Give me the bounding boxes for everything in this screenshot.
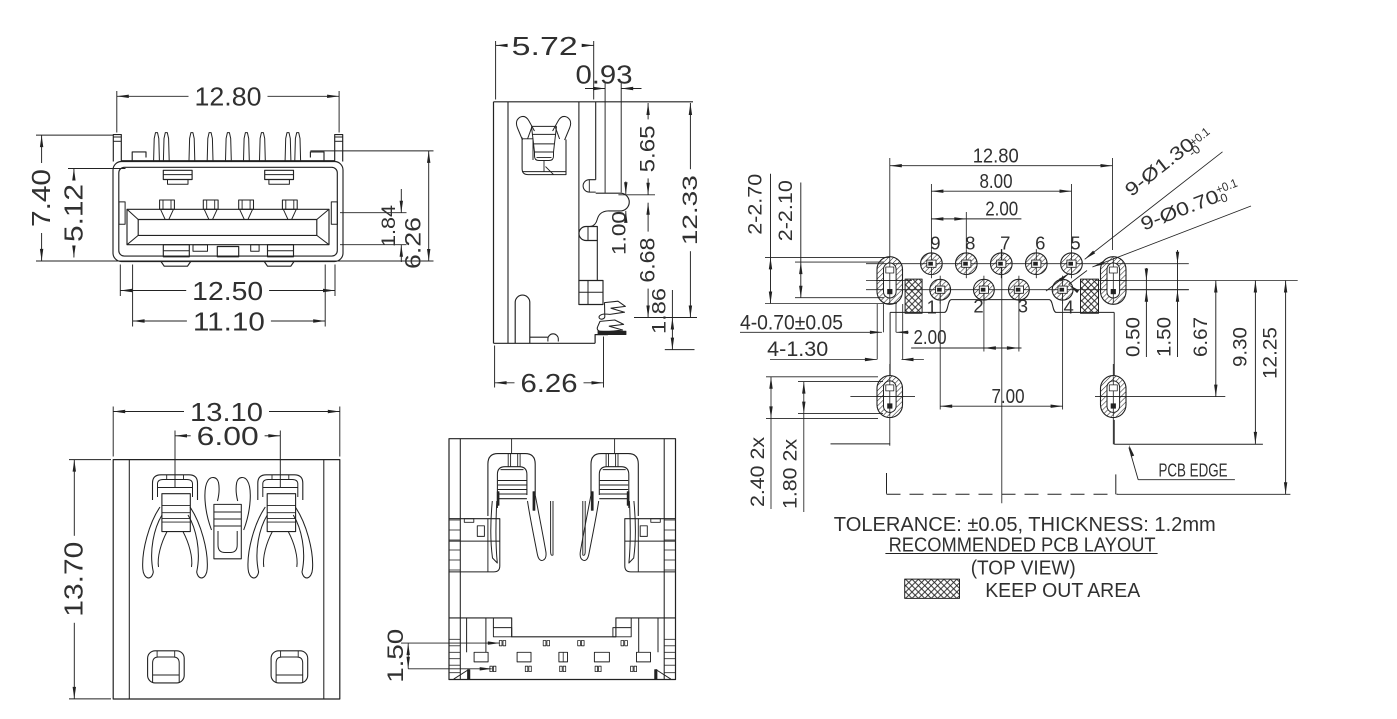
oblong mounting pad top-right (1100, 257, 1128, 305)
svg-text:7.00: 7.00 (992, 386, 1025, 408)
dimension 6.00 (spring spacing) (175, 421, 280, 451)
front view outer shell (113, 162, 343, 262)
plated hole pin 3 (Ø0.70) (1009, 279, 1030, 300)
right edge seam ticks (664, 519, 675, 521)
plated hole pin 2 (Ø0.70) (974, 279, 995, 300)
svg-text:12.33: 12.33 (679, 175, 702, 245)
dimension 0.93 (tab offset) (576, 60, 642, 193)
ext 2-2.10 top (795, 261, 884, 263)
bottom-left pad centerline below (889, 418, 891, 446)
bottom view right claw (580, 454, 638, 572)
pin1 ext line down (939, 290, 941, 410)
front view inner shell (119, 167, 337, 256)
dimension 13.70 (body length) (59, 460, 89, 699)
svg-text:13.70: 13.70 (59, 542, 89, 617)
front view left shoulder step (132, 152, 146, 161)
front view right foot (264, 262, 294, 267)
bottom-right pad centerline below (1112, 418, 1114, 445)
svg-text:3: 3 (1018, 296, 1028, 317)
right foot pad (271, 651, 308, 683)
svg-text:2-2.70: 2-2.70 (746, 174, 767, 235)
left terminal blocks (467, 618, 512, 662)
ext line 6.26 left (494, 346, 496, 388)
dimension 11.10 (133, 306, 326, 336)
dimension 1.80 2x (bottom slot length) (781, 382, 883, 512)
ext line 12.80 left (116, 91, 118, 133)
PCB edge ext to 12.25 (1118, 493, 1290, 495)
top hole row centerline (866, 263, 1189, 265)
svg-text:5.72: 5.72 (512, 31, 578, 61)
right spring claw (248, 475, 313, 578)
svg-text:6.00: 6.00 (197, 421, 259, 451)
side view: USB-A receptacle, side elevation (494, 31, 703, 398)
bottom-left view: connector top view with springs (59, 397, 340, 699)
left foot pad (148, 651, 185, 683)
oblong mounting pad bottom-left (876, 376, 904, 418)
svg-text:6.68: 6.68 (637, 238, 660, 283)
dimension 2.40 2x (bottom pad length) (748, 377, 878, 509)
footprint vertical centerline (pin7) (1001, 249, 1003, 503)
left edge seam ticks (449, 519, 460, 521)
plated hole pin 7 (Ø1.30) (991, 253, 1013, 275)
bottom-left pad horizontal centerline (850, 396, 915, 398)
front view tongue bevel top-left (127, 209, 138, 219)
front view right shoulder step (310, 152, 324, 161)
left spring claw (143, 475, 208, 578)
svg-text:1.84: 1.84 (379, 205, 400, 247)
svg-text:(TOP VIEW): (TOP VIEW) (971, 557, 1076, 579)
middle pad row (517, 652, 531, 662)
front view left foot (161, 262, 191, 267)
side view SMT lead fork lower (597, 320, 623, 332)
outline left vertical upper (889, 312, 891, 375)
ext 8.00 right (pin5) (1071, 184, 1073, 249)
keep out area legend swatch (905, 579, 960, 598)
right inner wall line (323, 460, 325, 699)
front view tongue bevel bottom-right (317, 235, 329, 244)
ext line 5.72 right (593, 41, 595, 100)
bottom-middle view: connector bottom view (383, 439, 676, 683)
svg-text:1: 1 (927, 297, 937, 318)
ext 12.80 right (1112, 158, 1114, 250)
dimension 6.67 (1191, 281, 1218, 397)
claw centerline tick right (614, 439, 616, 454)
ext line at tab top y=194.8 (618, 194, 655, 196)
dimension 6.26 (front shell height) (344, 151, 434, 269)
bottom-right pad centerline above (1112, 364, 1114, 376)
svg-text:4-0.70±0.05: 4-0.70±0.05 (740, 312, 843, 335)
dimension 2-2.10 (slot length) (776, 180, 803, 298)
ext 2-2.70 bottom (765, 303, 897, 305)
front view left mounting post (113, 135, 121, 162)
svg-text:0.50: 0.50 (1123, 317, 1144, 357)
dimension 1.50 (rows pitch) (1155, 250, 1180, 357)
svg-text:6.26: 6.26 (521, 368, 578, 398)
svg-text:12.80: 12.80 (973, 146, 1019, 168)
ext 2-2.70 top (765, 256, 890, 258)
front view tongue outer (127, 209, 329, 244)
plated hole pin 9 (Ø1.30) (921, 253, 943, 275)
ext line 12.50 left (119, 265, 121, 297)
svg-text:5.65: 5.65 (637, 125, 660, 172)
side view left inner wall (507, 102, 509, 343)
ext line 12.50 right (334, 265, 336, 297)
dimension 12.80 (front width) (117, 82, 339, 112)
svg-text:1.50: 1.50 (1155, 317, 1176, 357)
body rectangle (113, 460, 340, 699)
dimension 6.26 (side bottom width) (495, 368, 604, 398)
top-left pad vertical centerline stub (889, 250, 891, 257)
ext 6.00 left (174, 431, 176, 488)
oblong mounting pad top-left (876, 257, 904, 305)
svg-text:6: 6 (1035, 233, 1045, 254)
body rectangle (449, 439, 676, 680)
side view SMT lead fork upper (599, 301, 625, 319)
right terminal blocks (613, 618, 658, 662)
svg-text:1.80 2x: 1.80 2x (781, 438, 802, 509)
front view tongue inner face (138, 220, 317, 236)
svg-text:12.80: 12.80 (195, 82, 262, 112)
leader arrows to pin4 hole (1046, 271, 1087, 294)
front view right latch slot (265, 170, 294, 179)
dimension 12.33 (679, 103, 702, 318)
front view bottom tab left (163, 245, 189, 257)
svg-text:7: 7 (1000, 233, 1010, 254)
right inner wall (663, 439, 665, 680)
ext line 12.80 right (338, 91, 340, 133)
dimension 5.12 (58, 169, 88, 258)
dimension 0.50 (row offset) (1123, 268, 1148, 357)
bottom hole row centerline (866, 289, 1189, 291)
svg-text:2-2.10: 2-2.10 (776, 180, 797, 241)
front view serrated ground teeth (154, 133, 160, 161)
side view left outer wall (493, 102, 495, 343)
right shoulder top line (310, 150, 343, 152)
side view SMT pad bar (filled) (598, 331, 626, 334)
svg-text:0.93: 0.93 (576, 60, 633, 90)
svg-text:KEEP OUT AREA: KEEP OUT AREA (985, 580, 1141, 602)
side view lower ear tab (579, 227, 597, 241)
dimension 4-1.30 (pad width) leader (767, 304, 924, 361)
dimension 12.80 (hole span) (890, 146, 1113, 168)
ext line 5.12 top (68, 168, 126, 170)
baseline: long ground line under front view (36, 260, 434, 262)
bottom view middle spring legs (551, 501, 586, 555)
PCB notch edge left horizontal (831, 443, 891, 445)
svg-text:4: 4 (1064, 297, 1074, 318)
keep-out area square left (905, 279, 922, 313)
leader 9-Ø1.30 +0.1/-0 (1085, 124, 1223, 259)
dimension 1.86 (lead height) (650, 288, 695, 350)
plated hole pin 1 (Ø0.70) (930, 279, 951, 300)
front view: USB-A receptacle, front elevation (26, 82, 434, 337)
front view tongue bevel bottom-left (127, 235, 138, 244)
leader 9-Ø0.70 +0.1/-0 (1092, 176, 1251, 267)
svg-text:4-1.30: 4-1.30 (767, 338, 828, 361)
svg-text:2.40 2x: 2.40 2x (748, 436, 769, 507)
side view rear solder tab (596, 193, 630, 211)
svg-text:2: 2 (973, 296, 983, 317)
ext 8.00 left (pin9) (930, 184, 932, 249)
dimension 2-2.70 (pad length) (746, 174, 773, 304)
front view tongue contact bumps (4) (160, 200, 175, 209)
front view right side spring bar (331, 202, 337, 224)
front view right mounting post (335, 135, 343, 162)
oblong mounting pad bottom-right (1100, 376, 1128, 418)
side view S-notch under tab (590, 211, 609, 227)
svg-text:2.00: 2.00 (914, 327, 947, 349)
dimension 1.84 (tongue thickness) (340, 189, 407, 262)
bottom view left side block (449, 519, 500, 572)
front view bottom small tab A (193, 245, 208, 252)
front view bottom tab right (268, 245, 294, 257)
notes text block (834, 514, 1216, 602)
top-left pad horizontal centerline (866, 280, 912, 282)
ext 2-2.10 bottom (795, 297, 884, 299)
svg-text:1.86: 1.86 (650, 288, 671, 334)
bottom-left pad centerline above (889, 364, 891, 376)
dimension 13.10 (body width) (113, 397, 340, 427)
dimension 1.50 (pad row offset) (383, 629, 500, 683)
front view tongue bevel V-marks (161, 209, 166, 219)
bottom row hole vertical centerlines (939, 276, 941, 304)
side view inner right wall (578, 102, 580, 281)
plated hole pin 6 (Ø1.30) (1026, 253, 1048, 275)
pin3 ext line down (1018, 290, 1020, 352)
dimension 12.50 (120, 276, 335, 306)
ext line 11.10 left (132, 265, 134, 327)
bottom view right side block (625, 519, 676, 572)
left inner wall (459, 439, 461, 680)
keep-out area square right (1081, 279, 1099, 313)
ext 13.70 bottom (69, 698, 111, 700)
ext line 6.26 right (603, 337, 605, 388)
svg-text:12.50: 12.50 (192, 276, 263, 306)
dimension 7.00 (pins 1-4 span) (940, 386, 1062, 408)
outline right vertical upper (1113, 312, 1115, 375)
label PCB EDGE with leader (1129, 445, 1235, 481)
side view through-hole peg (515, 295, 530, 343)
PCB edge dash left vertical (886, 473, 888, 494)
dimension 1.00 (tab thickness) (610, 182, 631, 256)
PCB notch edge right horizontal (1114, 443, 1263, 445)
ext line at lead top y=317.5 (634, 317, 697, 319)
front view shell flange line (122, 160, 335, 162)
ext 13.70 top (69, 459, 111, 461)
front view tongue bevel top-right (317, 209, 329, 219)
side view small foot bump (548, 334, 558, 342)
svg-text:8.00: 8.00 (980, 171, 1013, 193)
ext 6.00 right (279, 431, 281, 488)
recommended PCB layout view (top view) (740, 124, 1298, 512)
dimension 12.25 (1261, 281, 1288, 495)
front view bottom small tab B (251, 245, 259, 252)
outline right vertical lower (1113, 420, 1115, 444)
side view top edge (with ext to dims) (494, 101, 694, 103)
top-right pad centerline / dim ref line (1095, 280, 1298, 282)
ext 12.80 left (889, 158, 891, 250)
side view outer right wall lower (596, 241, 598, 281)
front view left side spring bar (119, 202, 125, 224)
svg-text:1.00: 1.00 (610, 211, 631, 255)
svg-text:11.10: 11.10 (193, 306, 265, 336)
front view bottom middle tab (217, 247, 238, 257)
title underline (885, 553, 1157, 555)
svg-text:TOLERANCE: ±0.05, THICKNESS: 1: TOLERANCE: ±0.05, THICKNESS: 1.2mm (834, 514, 1216, 536)
svg-text:2.00: 2.00 (985, 199, 1018, 221)
svg-text:5.12: 5.12 (58, 184, 88, 242)
side view ledge line (530, 336, 548, 338)
side view bottom-right step (595, 335, 608, 344)
SMT pad row 2 (tiny) (490, 666, 493, 671)
ext 13.10 left (112, 407, 114, 457)
front view left latch slot (163, 170, 192, 179)
dimension 5.72 (side depth) (496, 31, 594, 61)
ext bottom row right (1130, 289, 1189, 291)
side view bottom edge (494, 342, 596, 344)
bottom-right pad centerline ext (1095, 396, 1225, 398)
side view retention clip crown (516, 116, 534, 140)
pin4 ext line down (1062, 290, 1064, 410)
plated hole pin 8 (Ø1.30) (956, 253, 978, 275)
plated hole pin 5 (Ø1.30) (1061, 253, 1083, 275)
side view contact block (579, 281, 603, 305)
svg-text:6.67: 6.67 (1191, 317, 1212, 357)
claw centerline tick left (511, 439, 513, 454)
middle spring fork (205, 478, 250, 559)
dimension 5.65 (637, 103, 660, 195)
left inner wall line (128, 460, 130, 699)
dimension 2.00 (pins 2-3 pitch) (911, 327, 1021, 350)
svg-text:12.25: 12.25 (1261, 327, 1282, 379)
dimension 8.00 (931, 171, 1071, 193)
PCB front edge dashed (887, 493, 1119, 495)
PCB edge dash right vertical (1115, 474, 1117, 494)
side view right wall upper (595, 102, 597, 180)
bottom corner wedges (454, 670, 671, 680)
bottom view left claw (488, 454, 546, 572)
dimension 6.68 (637, 203, 660, 318)
top row hole vertical centerlines (930, 249, 932, 278)
ext line 5.72 left (495, 41, 497, 100)
dimension 2.00 (top row pitch) (931, 199, 1021, 249)
pin2 ext line down (983, 290, 985, 352)
svg-text:6.26: 6.26 (401, 217, 426, 269)
dimension 9.30 (1230, 281, 1257, 444)
svg-text:7.40: 7.40 (26, 169, 56, 227)
ext line 11.10 right (324, 265, 326, 327)
svg-text:9.30: 9.30 (1230, 327, 1251, 367)
bottom recess outline (449, 618, 676, 637)
ext line 7.40 top (36, 134, 113, 136)
connector body outline over PCB (890, 300, 1114, 313)
svg-text:PCB EDGE: PCB EDGE (1159, 459, 1228, 480)
plated hole pin 4 (Ø0.70) (1052, 279, 1073, 300)
svg-text:1.50: 1.50 (383, 629, 408, 683)
side view top hook bump (583, 180, 596, 192)
SMT pad row 1 (tiny) (499, 641, 502, 646)
dimension 7.40 (front height) (26, 135, 56, 261)
dimension 4-0.70±0.05 (slot width) leader (740, 304, 909, 335)
ext 13.10 right (339, 407, 341, 457)
